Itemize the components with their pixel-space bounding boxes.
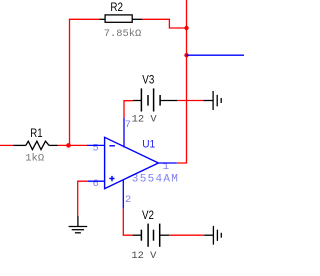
wire: R1 to inverting input (node A) (58, 144, 87, 146)
svg-text:R2: R2 (110, 2, 123, 14)
wire: feedback branch up-left vertical to R2 (70, 19, 100, 145)
svg-text:5: 5 (93, 143, 99, 155)
svg-text:2: 2 (125, 194, 131, 206)
resistor R2 (100, 15, 143, 22)
wire: V- supply pin 2 down to V2 (123, 209, 132, 236)
op-amp U1 pin stubs (87, 118, 177, 209)
battery V2 (133, 224, 170, 247)
wire: V+ supply pin 7 up to V3 (124, 101, 133, 118)
wire: output net vertical (177, 0, 187, 163)
wire: R2 right lead to output net (142, 19, 186, 28)
resistor R1 (14, 141, 58, 149)
ground GND3 (right of V2) (204, 226, 221, 245)
svg-text:V2: V2 (142, 210, 154, 222)
svg-text:7: 7 (125, 119, 131, 131)
node: junction dot output net / blue load wire (184, 53, 188, 57)
svg-text:1kΩ: 1kΩ (25, 153, 44, 165)
svg-text:U1: U1 (142, 139, 155, 151)
svg-text:7.85kΩ: 7.85kΩ (104, 28, 142, 40)
op-amp U1 triangle body (105, 137, 159, 188)
wire: V3 negative to ground (177, 100, 203, 102)
svg-text:V3: V3 (142, 75, 154, 87)
wire: V2 positive to ground (169, 234, 204, 236)
wire: output (blue) to right edge (187, 54, 245, 56)
svg-text:12 V: 12 V (132, 114, 158, 126)
wire: non-inverting input to ground (78, 181, 88, 216)
ground GND2 (right of V3) (203, 91, 221, 110)
svg-text:R1: R1 (30, 128, 42, 140)
ground GND1 (below op-amp) (69, 216, 88, 233)
svg-text:12 V: 12 V (131, 250, 157, 262)
node A: feedback junction dot (66, 143, 71, 148)
battery V3 (133, 88, 177, 111)
svg-text:3554AM: 3554AM (132, 173, 179, 185)
wire: input stub to R1 (0, 144, 14, 146)
svg-text:6: 6 (93, 178, 99, 190)
node: junction dot R2/output net (184, 26, 188, 30)
